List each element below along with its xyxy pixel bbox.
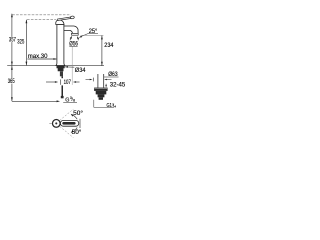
dimension line 325 vertical [25, 20, 27, 65]
dim 32-45 arrow [105, 84, 107, 86]
dashed swing line lower [60, 126, 74, 137]
label 357 [8, 37, 16, 42]
arrow down 365 bottom [11, 97, 13, 101]
svg-text:32-45: 32-45 [110, 82, 126, 89]
top view lever bar [62, 122, 75, 125]
svg-text:8: 8 [73, 99, 75, 103]
underline 25deg [88, 33, 99, 35]
outlet centerline [71, 47, 73, 85]
arrow right 107 [55, 81, 58, 83]
arrow down 325 deck [26, 62, 28, 66]
detail tube [97, 74, 99, 88]
tick 107 left [60, 79, 62, 84]
faucet body column [56, 25, 66, 66]
lever knob [70, 16, 74, 19]
supply hose lower [62, 85, 64, 96]
bottom reference line [12, 100, 57, 102]
leader G1 1/4 vertical [93, 100, 95, 108]
centerline dash left of circle [49, 122, 51, 124]
detail shank tip [99, 97, 103, 100]
arrow up 357 top [11, 14, 13, 18]
mounting nut under deck [57, 66, 65, 72]
arrow right max.30 [53, 58, 56, 60]
svg-text:50°: 50° [73, 110, 83, 117]
supply hose upper [62, 76, 64, 78]
detail nut upper [96, 91, 107, 95]
svg-text:325: 325 [17, 38, 24, 45]
hose end fitting [61, 96, 64, 98]
detail flange [94, 88, 108, 91]
arrow right hose end [57, 100, 60, 102]
svg-text:4: 4 [114, 105, 116, 109]
svg-text:107: 107 [64, 79, 72, 86]
svg-text:234: 234 [104, 42, 114, 49]
dim d63 right [104, 79, 107, 81]
column centerline [59, 46, 61, 66]
dashed swing line upper [60, 109, 74, 120]
deck line [7, 65, 104, 67]
faucet lever handle [57, 17, 72, 21]
dimension line 357/365 vertical [11, 14, 13, 101]
dim d63 left [86, 79, 91, 81]
leader G1 1/4 horizontal [94, 106, 114, 108]
svg-text:365: 365 [8, 78, 15, 85]
arrow left d34 [65, 66, 68, 68]
dimension line max.30 [27, 58, 56, 60]
faucet dome cap [56, 20, 64, 25]
threaded shank [60, 71, 63, 76]
leader line d34 [65, 66, 74, 68]
leader 25deg [80, 34, 87, 37]
tick 0deg [79, 119, 81, 128]
arrow down 234 [101, 62, 103, 66]
dimension line 107 right [76, 81, 79, 83]
faucet spout [64, 26, 78, 33]
arrow d56 left [70, 37, 72, 40]
svg-text:50°: 50° [72, 129, 82, 136]
arrow down 357 deck [11, 62, 13, 66]
underline d63 [104, 76, 119, 78]
extension line top 325 [27, 18, 56, 20]
svg-text:357: 357 [9, 37, 16, 44]
arrow 25deg [79, 36, 82, 38]
extension line top 357 [12, 14, 71, 16]
leader G3/8 [63, 101, 77, 103]
svg-text:Ø34: Ø34 [75, 67, 86, 74]
top view pivot dot [55, 122, 57, 124]
spout aerator outlet [72, 33, 79, 35]
arrow d56 right [78, 37, 79, 40]
arrow up 234 [101, 36, 103, 40]
top view lever outline [60, 120, 78, 126]
arrow up 365 deck [11, 66, 13, 70]
svg-text:25°: 25° [89, 28, 98, 35]
dimension line 234 [101, 36, 103, 66]
detail nut lower [98, 94, 105, 97]
arc arrow upper [71, 114, 77, 119]
dimension line 107 left [46, 81, 55, 83]
underline d56 [69, 45, 77, 47]
arc arrow lower [71, 128, 77, 133]
top view pivot circle [52, 120, 60, 128]
arrow left 107 [73, 81, 76, 83]
arrow up 325 top [26, 20, 28, 24]
label 365 [7, 78, 15, 83]
extension line spout outlet [81, 34, 104, 36]
